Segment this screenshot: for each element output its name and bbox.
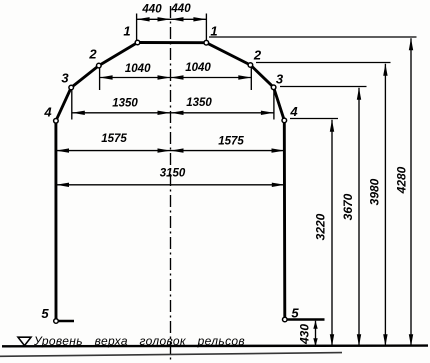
gauge outline left [56, 43, 138, 322]
svg-text:5: 5 [41, 306, 49, 321]
svg-text:3220: 3220 [314, 213, 328, 240]
dimension 4280 [409, 38, 413, 346]
svg-text:1350: 1350 [112, 97, 138, 109]
dimension 1575 right [171, 148, 285, 152]
point 4 left [54, 119, 59, 124]
point 4 right [282, 118, 287, 123]
svg-text:3: 3 [61, 71, 69, 86]
point 1 left [135, 40, 140, 45]
extension line from point 3 to 3670 dim [280, 86, 367, 88]
gauge top segment [138, 41, 207, 44]
svg-text:4: 4 [289, 104, 298, 119]
svg-text:2: 2 [88, 47, 97, 62]
dimension 430 [313, 321, 317, 347]
point 5 left foot line [56, 320, 74, 322]
point 5 right foot line [285, 318, 325, 320]
dimension 1350 right [171, 111, 274, 115]
extension line from point 2 to 3980 dim [256, 62, 391, 64]
point 3 right [271, 85, 276, 90]
svg-text:1575: 1575 [101, 133, 127, 145]
extension line from point 3 left [71, 90, 73, 120]
svg-text:5: 5 [291, 306, 299, 321]
svg-text:1040: 1040 [125, 63, 151, 75]
dimension 3150 [56, 183, 285, 187]
level mark triangle [18, 337, 31, 345]
point 5 left [54, 319, 59, 324]
extension line from point 1 to 4280 dim [209, 36, 417, 38]
extension line from point 2 right [250, 67, 252, 90]
svg-text:1: 1 [210, 24, 217, 39]
dimension 1350 left [72, 111, 171, 115]
dimension 1040 left [100, 75, 171, 79]
secondary ground line [0, 353, 342, 357]
dimension 3980 [383, 64, 387, 347]
extension line 440 right [205, 14, 207, 42]
svg-text:1040: 1040 [185, 62, 211, 74]
svg-text:4280: 4280 [395, 166, 409, 194]
dimension 440 right [171, 17, 207, 21]
svg-text:430: 430 [298, 324, 312, 345]
dimension 1575 left [56, 148, 171, 152]
point 3 left [69, 85, 74, 90]
point 2 left [97, 63, 102, 68]
svg-text:1: 1 [123, 24, 130, 39]
svg-text:1350: 1350 [186, 97, 212, 109]
svg-text:3: 3 [276, 72, 284, 87]
svg-text:3670: 3670 [341, 193, 355, 220]
svg-text:440: 440 [141, 3, 162, 15]
svg-text:Уровень верха головок рельсов: Уровень верха головок рельсов [33, 334, 245, 348]
svg-text:440: 440 [170, 3, 191, 15]
extension line from point 2 left [99, 68, 101, 91]
extension line from point 3 right [273, 90, 275, 120]
point 5 right [283, 317, 288, 322]
point 2 right [248, 63, 253, 68]
dimension 1040 right [171, 75, 252, 79]
extension line from point 4 to 3220 dim [290, 118, 338, 120]
gauge outline right [206, 43, 284, 320]
dimension 3220 [330, 120, 334, 347]
svg-text:1575: 1575 [218, 135, 244, 147]
svg-text:2: 2 [253, 48, 262, 63]
centerline [170, 6, 172, 360]
point 1 right [204, 40, 209, 45]
svg-text:4: 4 [43, 105, 52, 120]
rail head level line [2, 344, 428, 347]
dimension 440 left [137, 17, 171, 21]
dimension 3670 [357, 88, 361, 347]
extension line 440 left [136, 14, 138, 42]
svg-text:3980: 3980 [368, 178, 382, 205]
svg-text:3150: 3150 [160, 167, 186, 179]
